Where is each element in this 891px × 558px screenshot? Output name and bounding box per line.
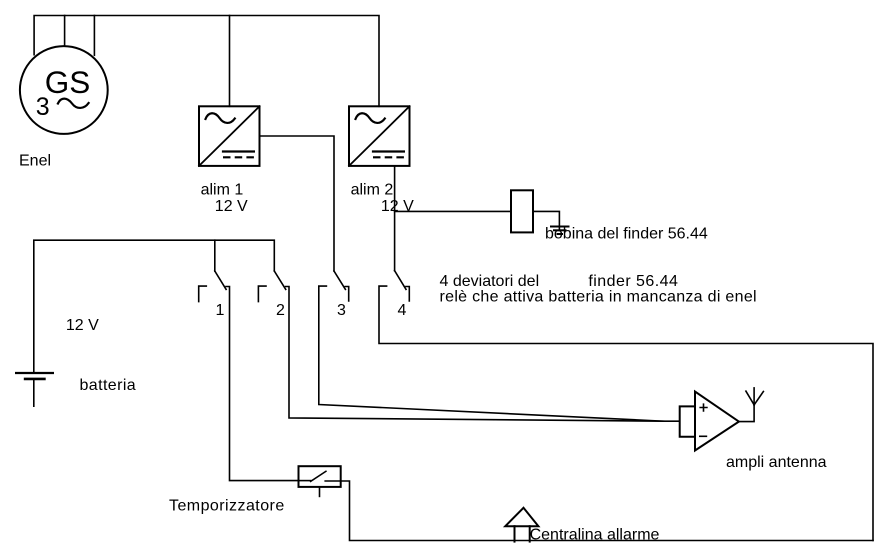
svg-text:Centralina allarme: Centralina allarme	[530, 527, 660, 544]
svg-text:12 V: 12 V	[381, 198, 414, 215]
wire temporizzatore to bottom bus	[341, 481, 873, 541]
svg-text:3: 3	[36, 93, 50, 121]
wire amp output	[739, 405, 754, 422]
switch 2 blade	[274, 271, 285, 289]
svg-text:2: 2	[276, 302, 285, 319]
wire switch 1 pole stub	[214, 240, 216, 271]
svg-text:batteria: batteria	[80, 377, 137, 394]
minus sign	[700, 435, 707, 437]
alim2 DC dashed line	[373, 156, 404, 158]
wire alim2 output to switch 4 pole	[394, 166, 396, 271]
switch 1 right contact wire to temporizzatore	[226, 287, 299, 481]
battery short plate	[25, 378, 44, 381]
switch 4 left contact wire to right edge and bottom	[379, 286, 873, 540]
alim1 DC solid line	[223, 150, 254, 152]
svg-text:ampli antenna: ampli antenna	[726, 454, 827, 471]
generator GS circle	[20, 46, 108, 134]
svg-text:12 V: 12 V	[66, 317, 99, 334]
svg-text:alim 2: alim 2	[351, 182, 394, 199]
switch 2 right contact wire to amplifier	[286, 287, 680, 422]
centralina allarme symbol triangle	[505, 508, 538, 526]
temporizzatore bottom stub	[319, 487, 321, 497]
battery bottom stub	[33, 379, 35, 406]
temporizzatore internal right lead	[325, 480, 341, 482]
relay coil bobina	[511, 190, 533, 232]
switch 4 right contact stub	[406, 287, 409, 301]
amplifier input box	[680, 406, 695, 436]
svg-text:GS: GS	[45, 64, 91, 100]
svg-text:12 V: 12 V	[215, 198, 248, 215]
switch 2 left contact	[258, 286, 266, 302]
alim2 DC solid line	[373, 150, 404, 152]
wire generator stub right	[93, 16, 95, 56]
switch 3 blade	[334, 271, 345, 289]
wire alim1 output to switch 3 pole	[260, 136, 335, 271]
antenna right branch	[754, 392, 763, 405]
switch 1 blade	[215, 271, 226, 289]
ground bar 3	[558, 233, 563, 235]
ground bar 1	[551, 226, 569, 228]
centralina stem right	[529, 526, 531, 541]
plus sign	[700, 404, 707, 411]
svg-text:relè che attiva batteria in ma: relè che attiva batteria in mancanza di …	[440, 288, 757, 305]
generator sine symbol	[58, 99, 89, 108]
antenna left branch	[746, 391, 754, 405]
alim2 diagonal	[349, 106, 410, 166]
svg-text:4: 4	[398, 302, 407, 319]
svg-text:1: 1	[216, 302, 225, 319]
power supply alim1 box	[199, 106, 260, 166]
wire drop to alim1	[229, 16, 231, 107]
wire generator stub middle	[64, 16, 66, 47]
temporizzatore internal blade	[311, 471, 326, 481]
wire coil to ground	[533, 211, 559, 230]
op-amp triangle	[695, 392, 739, 451]
alim1 sine symbol	[206, 113, 235, 123]
switch 3 right contact stub	[345, 287, 348, 301]
alim2 sine symbol	[356, 113, 385, 123]
svg-text:bobina del finder 56.44: bobina del finder 56.44	[545, 226, 708, 243]
alim1 diagonal	[199, 106, 260, 166]
battery long plate	[16, 372, 53, 374]
svg-text:Temporizzatore: Temporizzatore	[169, 497, 285, 514]
wire branch to relay coil	[395, 210, 511, 212]
wire battery bus to switch 2 pole	[34, 240, 274, 373]
antenna stem	[753, 388, 755, 405]
power supply alim2 box	[349, 106, 410, 166]
svg-text:3: 3	[337, 302, 346, 319]
wire top AC bus from generator to alim2	[34, 16, 379, 107]
svg-text:alim 1: alim 1	[201, 182, 244, 199]
centralina stem left	[514, 526, 516, 541]
switch 3 left contact wire to amplifier	[319, 286, 664, 421]
ground bar 2	[554, 229, 566, 231]
svg-text:Enel: Enel	[19, 153, 51, 170]
switch 4 blade	[395, 271, 406, 290]
switch 1 left contact	[199, 286, 207, 302]
temporizzatore box	[299, 466, 341, 487]
temporizzatore internal left lead	[299, 480, 311, 482]
alim1 DC dashed line	[223, 156, 254, 158]
